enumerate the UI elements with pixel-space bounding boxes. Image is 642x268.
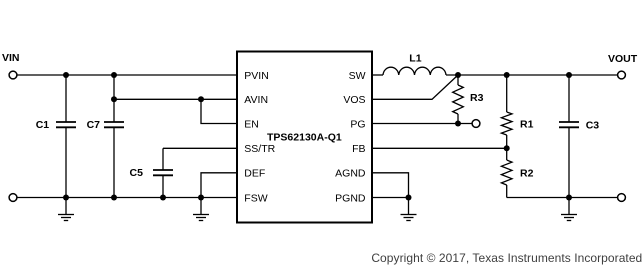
node R3/PG [455,121,461,127]
terminal VOUT [618,71,626,79]
wire C1 bottom lead [65,127,67,197]
node R1 top [504,72,510,78]
wire R3 top lead [457,75,459,85]
svg-text:DEF: DEF [244,168,265,180]
wire PVIN rail [17,74,237,76]
node EN/AVIN [198,96,204,102]
svg-text:EN: EN [244,118,259,130]
svg-text:SW: SW [349,70,366,82]
terminal GND right [618,194,626,202]
node C1/ground rail [63,195,69,201]
wire C5 bottom lead [162,175,164,197]
wire bottom-right rail [507,197,618,199]
wire bottom-left ground rail [17,197,237,199]
capacitor C1 [56,122,76,127]
wire R2 top lead [506,148,508,160]
ground at PGND [401,198,417,221]
node C7/AVIN [111,96,117,102]
svg-text:VOS: VOS [343,94,365,106]
wire SS/TR [163,147,237,149]
ground at C1 [58,198,74,221]
wire R3 bottom lead [457,114,459,124]
terminal VIN [9,71,17,79]
node C7/ground rail [111,195,117,201]
terminal GND left [9,194,17,202]
terminal PG [472,120,480,128]
capacitor C7 [104,122,124,127]
resistor R1 [501,112,512,135]
wire SW stub [372,74,383,76]
capacitor C5 [153,170,173,175]
resistor R3 [453,85,464,114]
svg-text:C5: C5 [130,167,144,179]
node C7/PVIN [111,72,117,78]
resistor R2 [501,160,512,185]
node DEF/ground rail [198,195,204,201]
svg-text:PGND: PGND [335,192,366,204]
op-amp U1 IC box TPS62130A-Q1 [237,52,372,223]
wire top-right rail [446,74,618,76]
wire C3 top lead [568,75,570,122]
svg-text:C1: C1 [36,119,50,131]
wire C7 bottom lead [113,127,115,197]
svg-text:AVIN: AVIN [244,94,268,106]
wire PGND stub [372,197,409,199]
node C1/PVIN [63,72,69,78]
svg-text:VOUT: VOUT [608,53,638,65]
svg-text:L1: L1 [409,53,421,65]
wire R1 top lead [506,75,508,112]
svg-text:TPS62130A-Q1: TPS62130A-Q1 [267,131,342,143]
svg-text:PVIN: PVIN [244,70,269,82]
svg-text:AGND: AGND [335,168,366,180]
wire FB [372,147,507,149]
ground at DEF/FSW [193,198,209,221]
wire R1 bottom lead [506,135,508,148]
svg-text:R2: R2 [520,168,534,180]
svg-text:FSW: FSW [244,192,267,204]
svg-text:VIN: VIN [2,52,20,64]
node C3 bottom [566,195,572,201]
node junction dots [63,72,572,201]
svg-text:C3: C3 [586,120,600,132]
wire C7 top lead [113,75,115,122]
wire AVIN rail [114,98,237,100]
svg-text:Copyright © 2017, Texas Instru: Copyright © 2017, Texas Instruments Inco… [371,251,642,265]
inductor L1 [383,67,446,75]
wire DEF branch [201,173,237,198]
svg-text:SS/TR: SS/TR [244,143,275,155]
wire AGND branch [372,173,409,198]
node SW/L1/R3/VOS [455,72,461,78]
ground at C3 [561,198,577,221]
wire VOS with diagonal [372,75,458,99]
wire PG [372,123,472,125]
wire C1 top lead [65,75,67,122]
wire EN branch [201,99,237,123]
svg-text:R1: R1 [520,119,534,131]
svg-text:PG: PG [350,118,365,130]
node AGND/PGND [406,195,412,201]
node FB/R1/R2 [504,145,510,151]
wire C5 top lead [162,148,164,170]
node C5/ground rail [160,195,166,201]
capacitor C3 [559,122,579,127]
wire R2 bottom lead [506,185,508,198]
node C3 top [566,72,572,78]
wire C3 bottom lead [568,127,570,197]
svg-text:FB: FB [352,143,365,155]
svg-text:C7: C7 [87,119,101,131]
svg-text:R3: R3 [470,92,484,104]
